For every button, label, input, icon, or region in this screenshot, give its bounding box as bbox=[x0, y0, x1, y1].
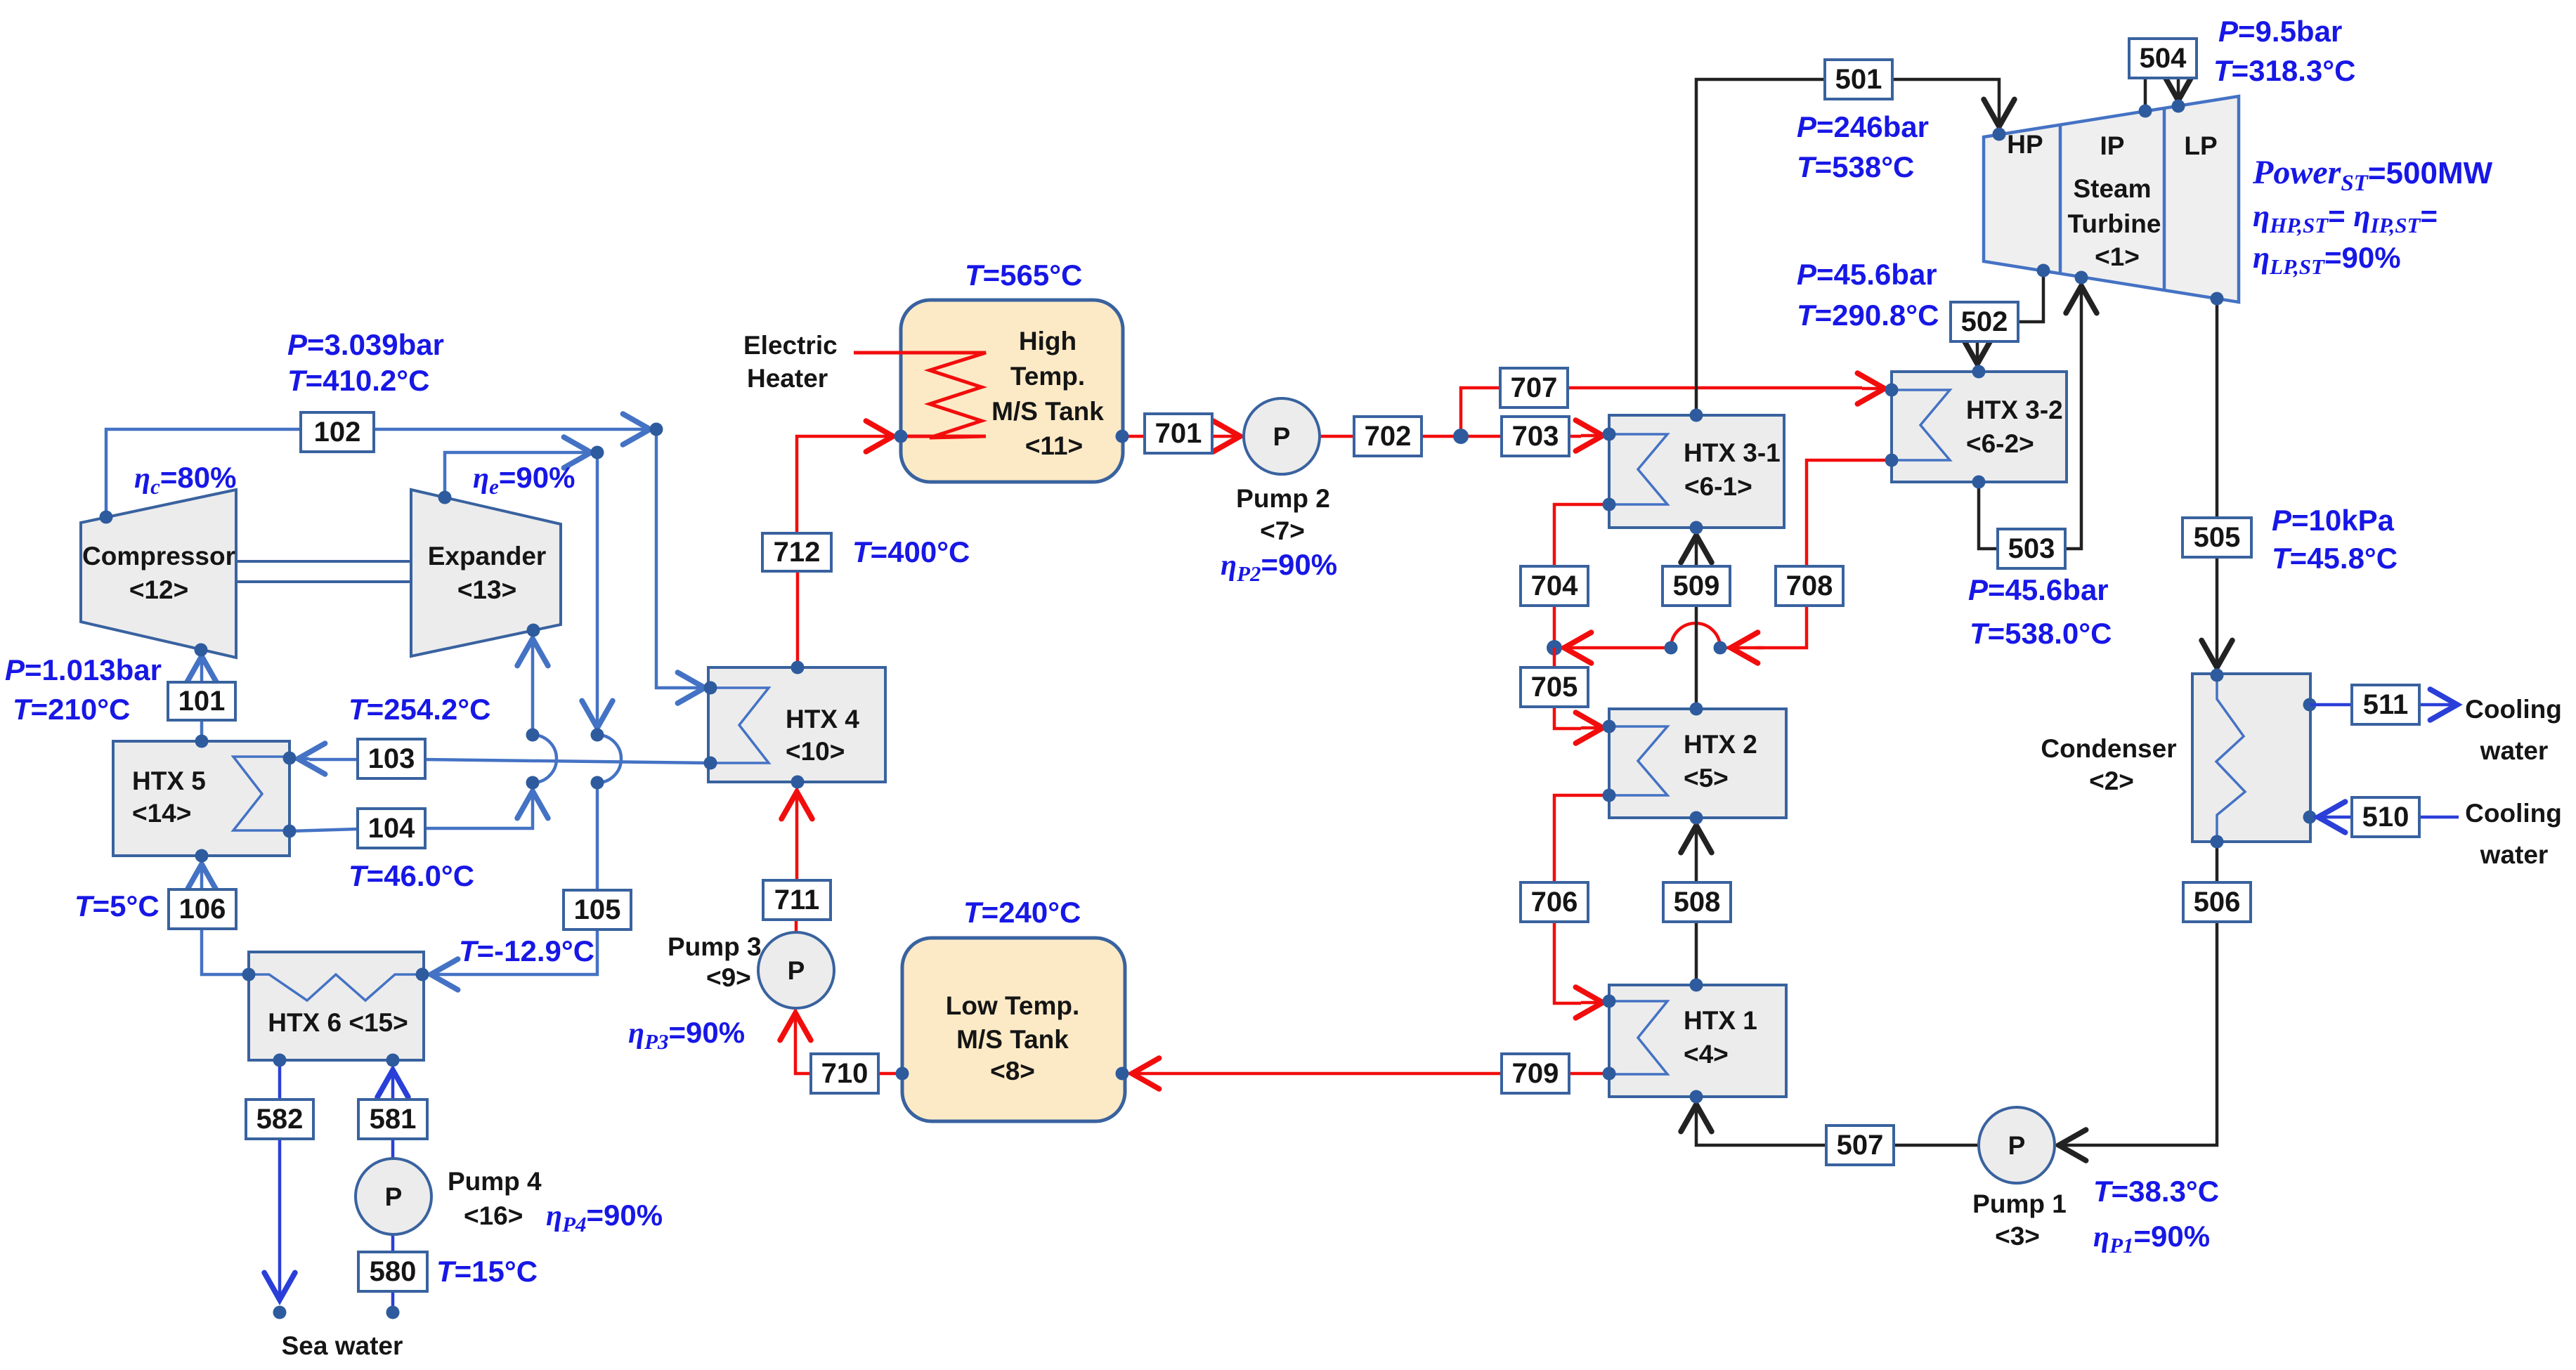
svg-text:Cooling: Cooling bbox=[2465, 799, 2562, 828]
node HTX2 bottom bbox=[1690, 811, 1703, 825]
svg-text:water: water bbox=[2480, 736, 2549, 765]
stream box 707 bbox=[1500, 368, 1568, 407]
svg-text:712: 712 bbox=[774, 537, 821, 568]
compressor <12> bbox=[81, 490, 236, 658]
svg-text:Cooling: Cooling bbox=[2465, 695, 2562, 724]
stream box 101 bbox=[168, 682, 235, 720]
svg-text:710: 710 bbox=[821, 1058, 869, 1089]
condenser <2> bbox=[2041, 674, 2310, 842]
svg-text:HTX 3-1: HTX 3-1 bbox=[1684, 438, 1781, 467]
svg-text:<13>: <13> bbox=[457, 575, 516, 604]
stream box 104 bbox=[358, 809, 425, 848]
node tank11 right bbox=[1116, 430, 1129, 443]
node compressor top bbox=[100, 511, 113, 524]
svg-text:ηc=80%: ηc=80% bbox=[134, 461, 236, 499]
svg-text:T=-12.9°C: T=-12.9°C bbox=[459, 934, 594, 967]
wire 105 (Expander to HTX6) bbox=[431, 452, 621, 974]
node HTX2 left-top bbox=[1603, 720, 1616, 733]
node condenser bottom bbox=[2211, 835, 2224, 849]
svg-text:M/S Tank: M/S Tank bbox=[956, 1025, 1069, 1054]
stream box 504 bbox=[2129, 39, 2197, 78]
label cooling water in bbox=[2465, 799, 2562, 869]
stream box 709 bbox=[1502, 1054, 1569, 1093]
svg-text:P=1.013bar: P=1.013bar bbox=[5, 653, 162, 686]
node tank8 left bbox=[896, 1067, 909, 1081]
node junction 702 bbox=[1453, 429, 1469, 444]
node condenser right-top bbox=[2303, 698, 2317, 712]
stream box 106 bbox=[169, 889, 236, 929]
low temp M/S tank <8> bbox=[902, 938, 1125, 1121]
node tank11 left bbox=[895, 430, 908, 443]
stream box 505 bbox=[2183, 518, 2251, 557]
wire 510 (cooling water in to condenser) bbox=[2318, 816, 2459, 819]
pump 3 <9> bbox=[668, 932, 834, 1008]
svg-text:T=5°C: T=5°C bbox=[74, 889, 160, 922]
node expander top bbox=[438, 491, 452, 504]
node hop 105 bottom bbox=[591, 776, 604, 790]
node HTX5 right-bottom bbox=[283, 825, 297, 838]
wire 703 (junction to HTX 3-1) bbox=[1461, 436, 1603, 436]
node HTX5 top bbox=[195, 735, 209, 748]
wire 507 (Pump 1 to HTX 1) bbox=[1696, 1104, 1979, 1145]
svg-text:Sea water: Sea water bbox=[282, 1331, 403, 1360]
wire 103 (HTX4 to HTX5) bbox=[298, 759, 710, 763]
svg-text:P=45.6bar: P=45.6bar bbox=[1968, 573, 2109, 606]
node HTX4 bottom bbox=[791, 776, 805, 789]
svg-text:Compressor: Compressor bbox=[82, 542, 235, 570]
svg-text:T=400°C: T=400°C bbox=[852, 535, 970, 568]
node HTX3-1 left-top bbox=[1603, 428, 1616, 441]
shaft compressor-expander bbox=[236, 561, 411, 582]
stream box 581 bbox=[358, 1100, 427, 1139]
wire 581 (sea water inlet via Pump 4) bbox=[391, 1070, 395, 1312]
svg-text:LP: LP bbox=[2184, 131, 2217, 160]
HTX 1 <4> bbox=[1609, 985, 1786, 1097]
svg-text:Pump 3: Pump 3 bbox=[668, 932, 762, 961]
svg-text:504: 504 bbox=[2140, 43, 2187, 74]
svg-text:<7>: <7> bbox=[1260, 516, 1305, 545]
node HTX2 top bbox=[1690, 703, 1703, 716]
node HTX1 left-bottom bbox=[1603, 1067, 1616, 1081]
wire 709 (HTX 1 to Low Temp tank) bbox=[1132, 1072, 1609, 1076]
svg-text:707: 707 bbox=[1511, 372, 1558, 403]
pump 2 <7> bbox=[1236, 398, 1330, 545]
svg-text:T=240°C: T=240°C bbox=[963, 896, 1081, 929]
wire 582 (sea water outlet) bbox=[273, 1060, 287, 1319]
svg-text:<4>: <4> bbox=[1684, 1040, 1729, 1069]
stream box 710 bbox=[811, 1054, 878, 1093]
node HTX3-2 left-top bbox=[1885, 384, 1899, 397]
wire 508 (HTX 1 to HTX 2) bbox=[1695, 826, 1698, 985]
node 105 corner bbox=[591, 446, 604, 459]
svg-text:511: 511 bbox=[2363, 689, 2409, 720]
node condenser top bbox=[2211, 669, 2224, 682]
svg-text:701: 701 bbox=[1155, 418, 1202, 449]
electric heater coil bbox=[854, 353, 986, 438]
HTX 2 <5> bbox=[1609, 709, 1786, 818]
svg-text:509: 509 bbox=[1673, 570, 1720, 601]
stream box 507 bbox=[1826, 1126, 1894, 1165]
svg-text:709: 709 bbox=[1512, 1058, 1559, 1089]
svg-text:502: 502 bbox=[1961, 306, 2008, 337]
svg-text:HTX 4: HTX 4 bbox=[786, 705, 859, 733]
svg-text:P: P bbox=[1273, 422, 1291, 451]
svg-text:T=565°C: T=565°C bbox=[965, 259, 1082, 292]
node compressor bottom bbox=[195, 644, 208, 657]
wire 502 (HP out to HTX 3-2) bbox=[1977, 270, 2043, 364]
stream box 706 bbox=[1521, 882, 1588, 922]
svg-text:P=3.039bar: P=3.039bar bbox=[287, 328, 444, 361]
svg-text:IP: IP bbox=[2100, 131, 2125, 160]
wire 712 (HTX4 to High Temp tank) bbox=[797, 436, 893, 667]
stream box 510 bbox=[2352, 797, 2419, 837]
svg-text:708: 708 bbox=[1786, 570, 1833, 601]
svg-text:<16>: <16> bbox=[464, 1201, 523, 1230]
stream box 102 bbox=[301, 412, 374, 452]
svg-text:T=538.0°C: T=538.0°C bbox=[1970, 617, 2112, 650]
node turbine IP outlet top bbox=[2139, 105, 2152, 118]
node expander bottom bbox=[527, 624, 540, 637]
svg-text:P=9.5bar: P=9.5bar bbox=[2218, 15, 2342, 48]
svg-text:P=246bar: P=246bar bbox=[1797, 110, 1929, 143]
svg-text:M/S Tank: M/S Tank bbox=[991, 397, 1104, 426]
svg-text:<6-1>: <6-1> bbox=[1684, 472, 1752, 501]
stream box 705 bbox=[1521, 667, 1588, 707]
svg-text:510: 510 bbox=[2362, 802, 2409, 833]
node HTX4 top bbox=[791, 661, 805, 674]
svg-text:101: 101 bbox=[178, 686, 226, 717]
svg-text:106: 106 bbox=[179, 894, 226, 925]
svg-text:507: 507 bbox=[1837, 1130, 1884, 1161]
HTX 6 <15> bbox=[249, 952, 424, 1060]
wire 706 (HTX 2 to HTX 1) bbox=[1554, 795, 1609, 1003]
svg-text:<2>: <2> bbox=[2089, 766, 2134, 795]
wire 710 (tank 8 to Pump 3) bbox=[795, 1013, 902, 1074]
node HTX5 bottom bbox=[195, 849, 209, 863]
node HTX6 left bbox=[242, 968, 256, 981]
svg-text:T=15°C: T=15°C bbox=[436, 1255, 538, 1288]
svg-text:Steam: Steam bbox=[2073, 174, 2151, 203]
svg-text:HTX 1: HTX 1 bbox=[1684, 1006, 1757, 1035]
wire 505 (LP to condenser) bbox=[2216, 299, 2219, 667]
wire 705 (junction to HTX 2) bbox=[1554, 648, 1603, 729]
svg-text:582: 582 bbox=[256, 1104, 304, 1135]
HTX 3-1 <6-1> bbox=[1609, 415, 1784, 528]
svg-text:<3>: <3> bbox=[1995, 1222, 2040, 1251]
HTX 5 <14> bbox=[113, 741, 290, 856]
stream box 509 bbox=[1663, 566, 1730, 606]
wire 708 (HTX 3-2 out to junction 705) bbox=[1564, 460, 1892, 648]
svg-text:Pump 4: Pump 4 bbox=[448, 1167, 542, 1196]
svg-text:704: 704 bbox=[1531, 570, 1578, 601]
node condenser right-bottom bbox=[2303, 811, 2317, 824]
svg-text:ηe=90%: ηe=90% bbox=[473, 461, 575, 499]
stream box 701 bbox=[1145, 414, 1212, 453]
svg-text:HTX 3-2: HTX 3-2 bbox=[1966, 396, 2063, 424]
label Electric Heater bbox=[743, 331, 838, 393]
node HTX1 left-top bbox=[1603, 995, 1616, 1008]
node HTX4 left-mid bbox=[704, 757, 717, 770]
node HTX3-2 bottom bbox=[1972, 476, 1986, 489]
svg-text:<12>: <12> bbox=[129, 575, 188, 604]
svg-text:Pump 2: Pump 2 bbox=[1236, 484, 1330, 513]
wire 503 (HTX 3-2 to IP turbine) bbox=[1979, 286, 2081, 549]
stream box 508 bbox=[1663, 882, 1731, 922]
svg-text:703: 703 bbox=[1512, 421, 1559, 452]
svg-text:P: P bbox=[2008, 1131, 2026, 1160]
HTX 4 <10> bbox=[708, 667, 885, 782]
node hop 104 top bbox=[526, 729, 540, 742]
node turbine LP inlet top bbox=[2172, 100, 2185, 113]
svg-text:706: 706 bbox=[1531, 887, 1578, 918]
wire 506 (condenser to Pump 1) bbox=[2059, 842, 2217, 1145]
svg-text:Turbine: Turbine bbox=[2068, 209, 2161, 238]
svg-text:HTX 5: HTX 5 bbox=[132, 766, 206, 795]
stream box 103 bbox=[358, 739, 425, 778]
svg-text:P: P bbox=[788, 956, 805, 985]
node hop 105 top bbox=[591, 729, 604, 742]
stream box 502 bbox=[1951, 302, 2018, 341]
steam turbine <1> bbox=[1984, 96, 2239, 302]
svg-text:T=538°C: T=538°C bbox=[1797, 150, 1914, 183]
wire 101 (HTX5 to Compressor) bbox=[200, 656, 204, 741]
svg-text:T=254.2°C: T=254.2°C bbox=[349, 693, 490, 726]
wire 711 (Pump 3 to HTX 4) bbox=[796, 792, 797, 932]
stream box 506 bbox=[2183, 882, 2251, 922]
svg-text:<8>: <8> bbox=[990, 1057, 1035, 1085]
svg-text:Low Temp.: Low Temp. bbox=[946, 991, 1079, 1020]
svg-text:501: 501 bbox=[1835, 64, 1882, 95]
HTX 3-2 <6-2> bbox=[1892, 372, 2067, 482]
svg-text:<11>: <11> bbox=[1025, 431, 1083, 460]
svg-text:T=45.8°C: T=45.8°C bbox=[2272, 542, 2398, 575]
node turbine IP inlet bottom bbox=[2075, 271, 2088, 285]
svg-text:102: 102 bbox=[314, 417, 361, 448]
node HTX3-1 left-bottom bbox=[1603, 498, 1616, 511]
svg-text:581: 581 bbox=[370, 1104, 417, 1135]
node HTX3-1 bottom bbox=[1690, 521, 1703, 535]
stream box 501 bbox=[1825, 60, 1892, 99]
svg-text:Condenser: Condenser bbox=[2041, 734, 2176, 763]
stream box 704 bbox=[1521, 566, 1588, 606]
node tank8 right bbox=[1116, 1067, 1129, 1081]
node junction 704-708 bbox=[1547, 640, 1562, 655]
stream box 711 bbox=[763, 880, 831, 920]
node turbine HP inlet bbox=[1993, 128, 2006, 141]
svg-text:580: 580 bbox=[370, 1256, 417, 1287]
wire 504 (IP out to LP in) bbox=[2145, 78, 2178, 111]
svg-text:705: 705 bbox=[1531, 672, 1578, 703]
stream box 503 bbox=[1998, 529, 2065, 568]
svg-text:Expander: Expander bbox=[428, 542, 547, 570]
stream box 580 bbox=[358, 1252, 427, 1291]
svg-text:water: water bbox=[2480, 840, 2549, 869]
node 102 corner bbox=[650, 423, 663, 436]
svg-text:T=410.2°C: T=410.2°C bbox=[287, 364, 429, 397]
svg-text:T=318.3°C: T=318.3°C bbox=[2213, 54, 2355, 87]
wire 104 (HTX5 to Expander) bbox=[290, 639, 557, 831]
wire 501 (HTX 3-1 to HP turbine) bbox=[1696, 79, 1999, 415]
node hop 104 bottom bbox=[526, 776, 540, 790]
svg-text:<1>: <1> bbox=[2095, 242, 2140, 271]
wire 702 (Pump 2 to junction) bbox=[1320, 435, 1461, 438]
svg-text:Temp.: Temp. bbox=[1010, 362, 1085, 391]
svg-text:<6-2>: <6-2> bbox=[1966, 429, 2034, 458]
node HTX3-2 top bbox=[1972, 365, 1986, 379]
svg-text:Pump 1: Pump 1 bbox=[1972, 1189, 2067, 1218]
wire 106 (HTX6 to HTX5) bbox=[202, 864, 249, 974]
svg-text:P: P bbox=[385, 1182, 403, 1211]
svg-text:Heater: Heater bbox=[747, 364, 828, 393]
node hop708 right bbox=[1714, 641, 1727, 655]
svg-text:506: 506 bbox=[2194, 887, 2241, 918]
pump 1 <3> bbox=[1972, 1107, 2067, 1251]
stream box 105 bbox=[564, 890, 631, 929]
svg-text:<14>: <14> bbox=[132, 799, 191, 828]
wire 704 (HTX 3-1 out to junction 705) bbox=[1554, 504, 1609, 648]
node turbine HP outlet bbox=[2037, 264, 2050, 278]
svg-text:508: 508 bbox=[1674, 887, 1721, 918]
label cooling water out bbox=[2465, 695, 2562, 765]
wire 511 (condenser to cooling water out) bbox=[2310, 703, 2457, 707]
stream box 708 bbox=[1776, 566, 1843, 606]
node HTX6 bottom-right bbox=[386, 1054, 400, 1067]
node HTX1 top bbox=[1690, 979, 1703, 992]
wire 701 (tank 11 to Pump 2) bbox=[1122, 435, 1240, 438]
svg-text:HTX 2: HTX 2 bbox=[1684, 730, 1757, 759]
wire 102 (Compressor to HTX4) bbox=[106, 429, 705, 688]
high temp M/S tank <11> bbox=[901, 300, 1123, 482]
svg-text:T=210°C: T=210°C bbox=[13, 693, 130, 726]
svg-text:PowerST=500MW: PowerST=500MW bbox=[2252, 154, 2493, 196]
svg-text:HP: HP bbox=[2007, 130, 2043, 159]
node HTX5 right-top bbox=[283, 752, 297, 765]
svg-text:505: 505 bbox=[2194, 522, 2241, 553]
node HTX4 left-top bbox=[704, 681, 717, 695]
node HTX3-2 left-bottom bbox=[1885, 454, 1899, 467]
svg-text:<5>: <5> bbox=[1684, 764, 1729, 792]
svg-text:503: 503 bbox=[2008, 533, 2055, 564]
svg-text:T=46.0°C: T=46.0°C bbox=[349, 859, 474, 892]
node 581 end bbox=[386, 1306, 400, 1319]
node HTX6 right bbox=[416, 968, 429, 981]
svg-text:Electric: Electric bbox=[743, 331, 838, 360]
node hop708 left bbox=[1665, 641, 1678, 655]
node HTX1 bottom bbox=[1690, 1090, 1703, 1104]
svg-text:<10>: <10> bbox=[786, 737, 845, 766]
svg-text:104: 104 bbox=[368, 813, 415, 844]
stream box 511 bbox=[2352, 685, 2419, 724]
svg-text:HTX 6 <15>: HTX 6 <15> bbox=[268, 1008, 408, 1037]
wire 509 (HTX 2 to HTX 3-1) bbox=[1695, 535, 1698, 709]
stream box 702 bbox=[1354, 417, 1422, 456]
svg-text:P=45.6bar: P=45.6bar bbox=[1797, 258, 1937, 291]
svg-text:T=38.3°C: T=38.3°C bbox=[2093, 1175, 2219, 1208]
stream box 703 bbox=[1502, 417, 1569, 456]
svg-text:<9>: <9> bbox=[706, 963, 751, 992]
svg-text:702: 702 bbox=[1365, 421, 1412, 452]
node HTX2 left-bottom bbox=[1603, 789, 1616, 802]
svg-text:105: 105 bbox=[574, 894, 621, 925]
svg-text:P=10kPa: P=10kPa bbox=[2272, 504, 2395, 537]
svg-text:High: High bbox=[1019, 327, 1076, 355]
svg-text:T=290.8°C: T=290.8°C bbox=[1797, 299, 1939, 332]
svg-text:103: 103 bbox=[368, 743, 415, 774]
node HTX6 bottom-left bbox=[273, 1054, 287, 1067]
node HTX3-1 top bbox=[1690, 409, 1703, 422]
svg-text:711: 711 bbox=[774, 885, 820, 915]
node turbine LP outlet bbox=[2211, 292, 2224, 306]
wire 707 (junction to HTX 3-2) bbox=[1461, 388, 1885, 436]
expander <13> bbox=[411, 490, 561, 656]
pump 4 <16> bbox=[356, 1159, 542, 1234]
stream box 582 bbox=[246, 1100, 313, 1139]
stream box 712 bbox=[762, 533, 831, 571]
